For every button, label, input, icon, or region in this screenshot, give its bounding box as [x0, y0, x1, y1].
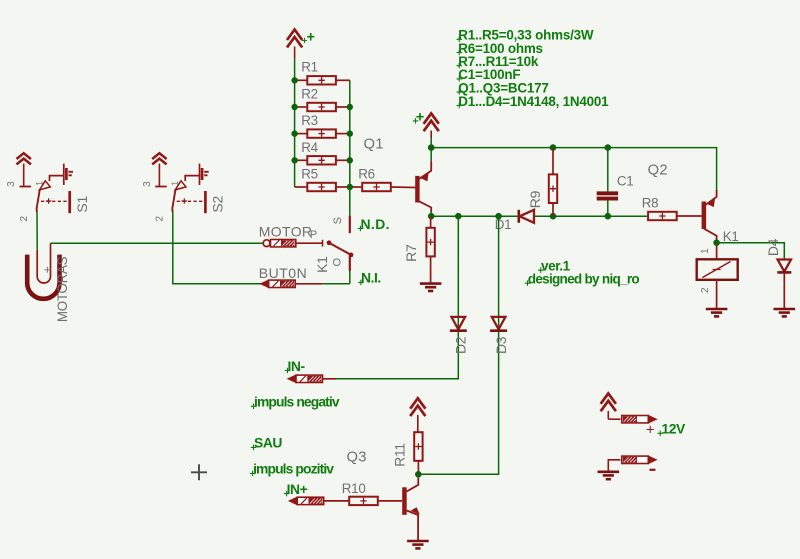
connector BUT0N [259, 265, 307, 288]
wire top rail [431, 148, 716, 191]
svg-text:R9: R9 [527, 190, 543, 208]
supply arrow +V (12V) [601, 393, 616, 419]
svg-text:Q3: Q3 [347, 449, 367, 465]
svg-text:N.I.: N.I. [361, 270, 381, 286]
resistor R8 [642, 195, 702, 220]
svg-text:MOTOR: MOTOR [259, 223, 313, 239]
diode D1 [495, 210, 534, 232]
wire K1 node to D4 [717, 243, 785, 260]
svg-text:R8: R8 [642, 195, 659, 210]
wire K1 N.I. contact to BUT0N rail [349, 271, 351, 284]
resistor R5 [295, 166, 350, 191]
label ver.1 [538, 258, 571, 273]
svg-text:impuls negativ: impuls negativ [254, 394, 340, 410]
svg-text:K1: K1 [314, 256, 330, 273]
svg-text:R1: R1 [301, 60, 318, 75]
svg-text:MOTORAS: MOTORAS [55, 256, 70, 322]
wire mid rail right segment [535, 215, 648, 217]
svg-text:R10: R10 [342, 481, 366, 496]
wire minus connector to ground [608, 460, 620, 472]
label SAU [251, 435, 283, 451]
diode D2 [450, 317, 469, 354]
supply arrow +V (Q1 emitter) [424, 113, 439, 147]
connector minus [622, 456, 657, 470]
resistor R7 [403, 216, 435, 283]
label designed by niq_ro [525, 271, 640, 286]
svg-text:3: 3 [6, 181, 17, 187]
net label + (top left arrow) [302, 30, 315, 46]
junction dot mid rail at D2 [455, 213, 462, 220]
wire left rail of resistor bank [294, 78, 296, 187]
label impuls pozitiv [250, 461, 334, 477]
svg-text:P: P [310, 229, 317, 241]
svg-text:12V: 12V [662, 421, 687, 437]
label N.I. [358, 270, 381, 286]
svg-text:R3: R3 [301, 113, 318, 128]
svg-text:R2: R2 [301, 86, 318, 101]
junction dots right rail [347, 104, 353, 190]
wire S2 down and to BUT0N [173, 212, 261, 284]
wire arrow to 12V connector [608, 418, 620, 420]
junction dots left rail [291, 77, 297, 163]
svg-text:1: 1 [700, 248, 711, 254]
supply arrow +V (R11) [410, 398, 425, 432]
label 12V [658, 421, 687, 437]
wire D3 branch [418, 216, 498, 474]
supply arrow +V (resistor bank) [287, 30, 302, 81]
svg-text:+: + [307, 30, 315, 46]
svg-text:S: S [332, 217, 344, 224]
resistor R4 [295, 140, 350, 165]
junction dot K1 node [713, 239, 720, 246]
svg-text:K1: K1 [723, 229, 739, 244]
label N.D. [358, 216, 390, 232]
net label + (Q1 arrow) [413, 109, 424, 125]
resistor R2 [295, 86, 350, 111]
wire D2 branch [336, 216, 458, 379]
svg-text:D2: D2 [452, 336, 468, 354]
svg-text:S2: S2 [210, 196, 226, 213]
ground below R7 [420, 284, 442, 291]
capacitor C1 [597, 148, 634, 217]
svg-text:IN-: IN- [288, 358, 306, 374]
svg-text:O: O [331, 258, 343, 267]
transistor Q2 [648, 162, 717, 239]
connector IN- [285, 358, 336, 383]
ground below relay K1 [706, 309, 728, 316]
svg-text:R5: R5 [301, 166, 318, 181]
svg-text:BUT0N: BUT0N [259, 265, 307, 281]
junction dot mid rail at Q1 collector [428, 213, 435, 220]
connector 12V plus [622, 415, 657, 438]
wire Q1 collector to mid rail [430, 211, 432, 216]
wire mid rail left segment [431, 215, 517, 217]
svg-text:D4: D4 [765, 238, 781, 256]
resistor R6 [350, 166, 416, 191]
svg-text:+: + [416, 109, 424, 125]
junction dot mid rail at D3 [495, 213, 502, 220]
connector IN+ [284, 481, 349, 505]
wire BUT0N connector to K1 N.I. [295, 283, 322, 285]
svg-text:C1: C1 [617, 174, 634, 189]
junction dot top rail at R9 [550, 144, 557, 151]
junction dot mid rail at R9 [550, 213, 557, 220]
svg-text:+: + [646, 423, 654, 439]
svg-text:2: 2 [19, 216, 30, 222]
svg-text:R4: R4 [301, 140, 318, 155]
svg-text:3: 3 [142, 181, 153, 187]
svg-text:S1: S1 [74, 196, 90, 213]
junction dot top rail at C1 [605, 144, 612, 151]
resistor R3 [295, 113, 350, 138]
svg-text:2: 2 [155, 216, 166, 222]
svg-text:D1: D1 [495, 217, 512, 232]
resistor R9 [527, 148, 557, 217]
svg-text:Q2: Q2 [648, 162, 668, 178]
junction dot mid rail at C1 [605, 213, 612, 220]
svg-text:impuls pozitiv: impuls pozitiv [253, 461, 334, 477]
ground at minus [598, 472, 620, 479]
relay contact K1 [314, 216, 353, 273]
diode D4 [765, 238, 791, 308]
svg-text:D3: D3 [493, 336, 509, 354]
wire MOTORAS to MOTOR connector [51, 242, 264, 244]
wire Q1 emitter to top rail [430, 148, 432, 162]
relay coil K1 [697, 229, 739, 308]
svg-text:R11: R11 [393, 443, 408, 466]
ground below D4 [774, 309, 796, 316]
resistor R10 [342, 481, 402, 505]
ground below Q3 [407, 541, 429, 548]
svg-text:IN+: IN+ [287, 481, 308, 497]
wire MOTOR connector to K1 pole [296, 242, 323, 244]
wire Q2 collector to relay node [716, 239, 718, 243]
resistor R1 [295, 60, 350, 85]
pushbutton S1 [6, 153, 90, 221]
svg-text:designed by niq_ro: designed by niq_ro [528, 271, 640, 286]
connector MOTOR [259, 223, 317, 247]
origin cross mark [191, 464, 207, 480]
wire S1 to MOTORAS [36, 212, 38, 250]
notes text block [457, 28, 610, 109]
resistor R11 [393, 432, 423, 474]
svg-text:SAU: SAU [254, 435, 282, 451]
junction dot Q3 collector node [415, 471, 422, 478]
svg-text:Q1: Q1 [364, 136, 384, 152]
svg-text:D1...D4=1N4148, 1N4001: D1...D4=1N4148, 1N4001 [458, 94, 609, 109]
svg-text:R6: R6 [358, 166, 375, 181]
motor MOTORAS [27, 243, 70, 322]
pushbutton S2 [142, 153, 226, 221]
label impuls negativ [251, 394, 340, 410]
diode D3 [490, 317, 509, 354]
transistor Q1 [364, 136, 432, 212]
svg-text:N.D.: N.D. [361, 216, 390, 232]
wire right rail of resistor bank down to switch contact [349, 80, 351, 215]
svg-text:2: 2 [700, 287, 711, 293]
transistor Q3 [347, 449, 420, 541]
svg-text:R7: R7 [403, 244, 419, 262]
junction dot top rail at Q1 [428, 144, 435, 151]
